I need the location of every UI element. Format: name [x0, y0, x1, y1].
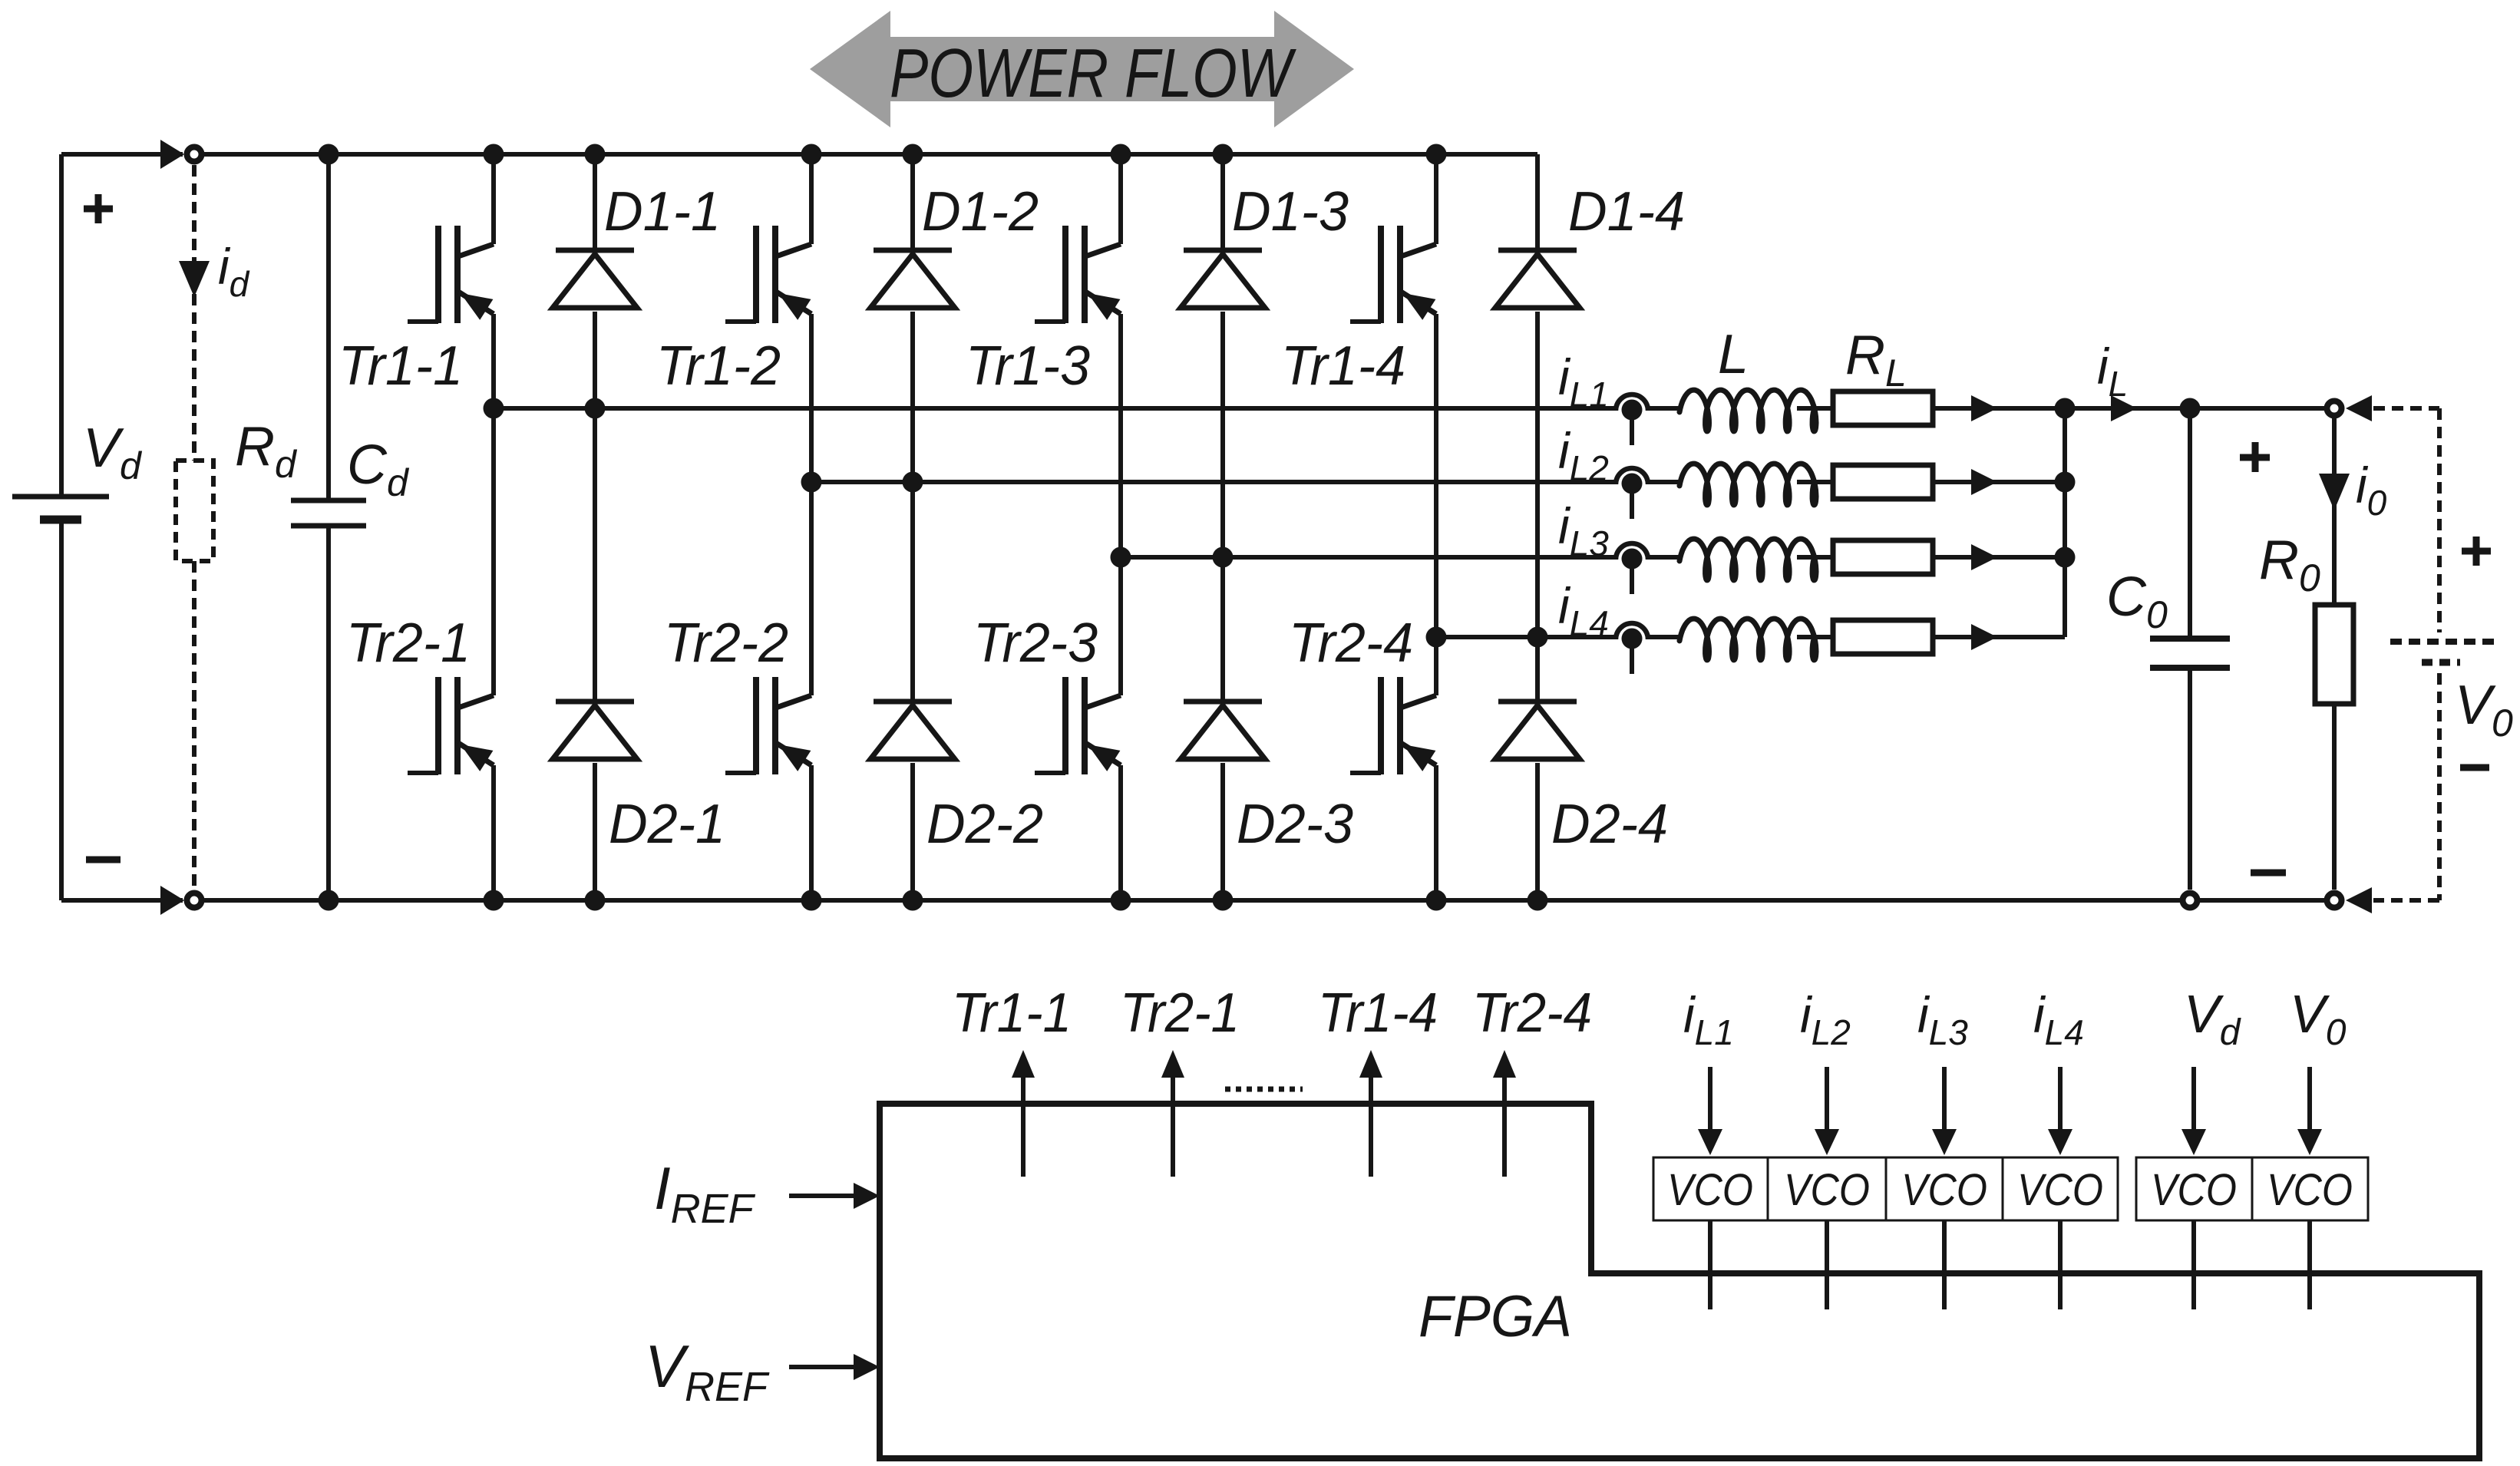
svg-text:VCO: VCO — [2017, 1165, 2103, 1215]
svg-text:FPGA: FPGA — [1419, 1284, 1572, 1349]
svg-text:Tr1-4: Tr1-4 — [1318, 982, 1438, 1044]
svg-text:D2-4: D2-4 — [1551, 794, 1668, 855]
svg-text:Tr1-1: Tr1-1 — [339, 335, 463, 397]
svg-text:D2-3: D2-3 — [1237, 794, 1353, 855]
svg-text:Tr1-2: Tr1-2 — [656, 335, 781, 397]
svg-text:VCO: VCO — [2267, 1165, 2353, 1215]
svg-text:VCO: VCO — [1784, 1165, 1870, 1215]
svg-text:Tr1-1: Tr1-1 — [952, 982, 1072, 1044]
svg-text:Tr1-4: Tr1-4 — [1281, 335, 1405, 397]
svg-text:VCO: VCO — [1901, 1165, 1987, 1215]
svg-text:POWER FLOW: POWER FLOW — [890, 35, 1297, 112]
svg-text:D1-4: D1-4 — [1568, 181, 1685, 243]
svg-text:VCO: VCO — [1667, 1165, 1753, 1215]
svg-text:D1-3: D1-3 — [1232, 181, 1349, 243]
svg-text:L: L — [1718, 324, 1749, 385]
svg-text:Tr2-2: Tr2-2 — [664, 612, 788, 674]
svg-text:D2-1: D2-1 — [609, 794, 725, 855]
svg-text:Tr2-3: Tr2-3 — [973, 612, 1098, 674]
svg-text:Tr2-1: Tr2-1 — [346, 612, 471, 674]
svg-text:D2-2: D2-2 — [926, 794, 1043, 855]
svg-text:Tr2-4: Tr2-4 — [1472, 982, 1592, 1044]
svg-text:Tr1-3: Tr1-3 — [966, 335, 1090, 397]
svg-text:D1-1: D1-1 — [604, 181, 721, 243]
svg-text:Tr2-1: Tr2-1 — [1120, 982, 1240, 1044]
svg-text:VCO: VCO — [2151, 1165, 2237, 1215]
svg-text:Tr2-4: Tr2-4 — [1289, 612, 1413, 674]
svg-text:D1-2: D1-2 — [922, 181, 1039, 243]
